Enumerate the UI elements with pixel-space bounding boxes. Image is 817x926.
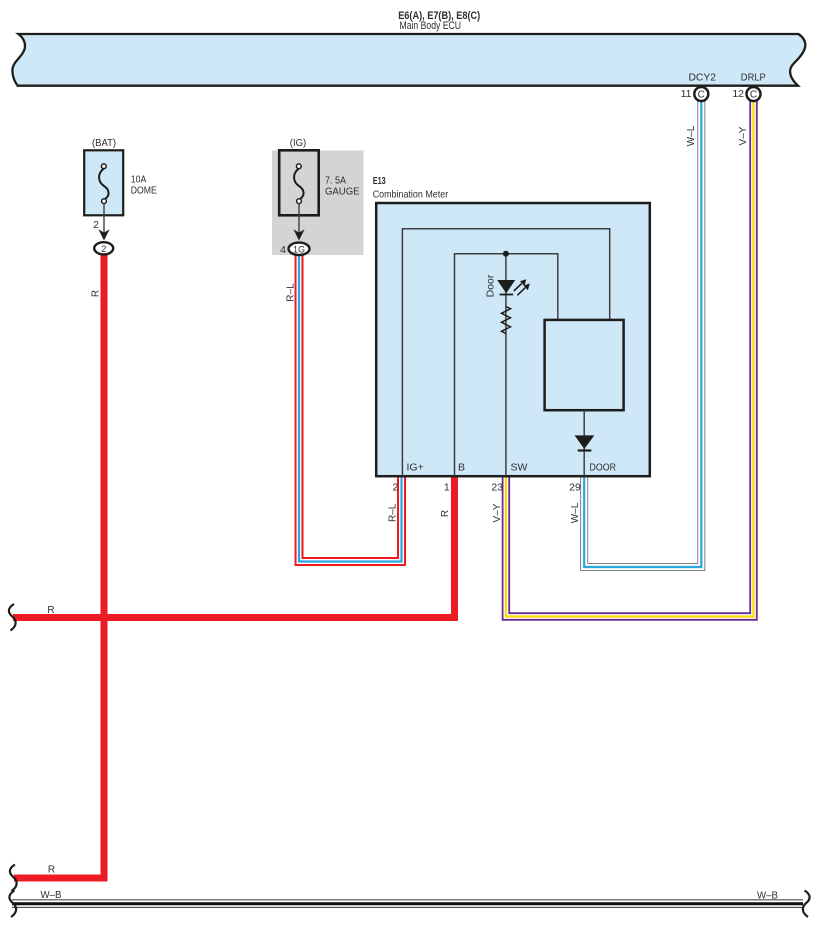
wire W-L from DCY2 pin 11 down, left to meter pin 29 — [584, 100, 701, 567]
svg-text:12: 12 — [732, 88, 744, 100]
break symbol left of bottom R line — [10, 865, 17, 892]
svg-text:(IG): (IG) — [290, 137, 307, 149]
ground bus W-B line — [12, 900, 803, 908]
wire R-L from IG fuse down, right to meter pin 2 — [299, 252, 402, 562]
svg-text:W–L: W–L — [570, 502, 581, 523]
svg-text:V–Y: V–Y — [492, 503, 503, 522]
svg-text:DRLP: DRLP — [741, 72, 766, 84]
svg-text:R: R — [48, 865, 55, 876]
svg-text:R: R — [47, 605, 54, 616]
junction node dot — [503, 251, 509, 257]
svg-text:Combination Meter: Combination Meter — [373, 189, 449, 201]
svg-text:DOME: DOME — [131, 185, 157, 197]
internal wire sub-box to DOOR pin — [583, 410, 585, 476]
svg-text:2: 2 — [392, 482, 398, 494]
svg-text:E13: E13 — [373, 175, 386, 187]
svg-text:Door: Door — [485, 274, 497, 297]
wire R main: BAT vertical down to bottom corner — [14, 252, 104, 878]
sub-box (door switch logic) — [545, 320, 624, 410]
break symbol left of W-B line — [9, 891, 16, 918]
arrow into connector 2 — [98, 229, 109, 240]
fuse F2 IG element — [294, 164, 303, 204]
svg-text:R–L: R–L — [388, 503, 399, 522]
svg-text:C: C — [750, 90, 757, 101]
svg-text:B: B — [458, 462, 465, 474]
diode at DOOR output — [575, 435, 595, 451]
svg-text:W–L: W–L — [686, 125, 697, 146]
connector oval 2 — [94, 242, 113, 254]
wire from fuse BAT to connector — [103, 204, 105, 233]
svg-text:Main Body ECU: Main Body ECU — [400, 20, 462, 32]
svg-text:V–Y: V–Y — [738, 126, 749, 145]
resistor in LED branch — [502, 307, 511, 334]
svg-text:IG+: IG+ — [407, 462, 424, 474]
svg-text:23: 23 — [491, 482, 503, 494]
svg-text:R–L: R–L — [286, 283, 297, 302]
svg-text:11: 11 — [681, 88, 692, 100]
break symbol right of W-B line — [803, 891, 810, 918]
svg-text:(BAT): (BAT) — [92, 137, 116, 149]
connector oval 1G — [289, 243, 310, 255]
fuse F2 IG box — [279, 150, 319, 215]
break symbol left of main R line — [9, 604, 16, 631]
ECU bus bar E6/E7/E8 Main Body ECU — [12, 34, 805, 86]
svg-text:GAUGE: GAUGE — [325, 186, 360, 198]
svg-text:C: C — [698, 90, 705, 101]
arrow into connector 1G — [293, 229, 304, 240]
svg-text:1G: 1G — [293, 244, 305, 254]
fuse F1 BAT box — [84, 150, 123, 215]
internal wire from B up and over to sub-box — [455, 254, 558, 476]
wire from fuse IG to connector — [298, 204, 300, 233]
svg-text:W–B: W–B — [41, 890, 62, 901]
svg-text:29: 29 — [569, 482, 581, 494]
svg-text:4: 4 — [280, 244, 286, 256]
svg-text:1: 1 — [444, 482, 450, 494]
svg-text:2: 2 — [101, 244, 106, 254]
internal wire LED branch down to SW — [505, 254, 507, 476]
svg-text:DOOR: DOOR — [590, 462, 617, 474]
wire R main horizontal at y617.5 to meter pin 1 — [13, 476, 455, 621]
fuse block gray background (IG) — [272, 151, 364, 256]
internal wire from IG+ up and over to sub-box — [402, 229, 609, 476]
svg-text:W–B: W–B — [757, 891, 778, 902]
LED Door indicator — [497, 279, 530, 295]
svg-text:SW: SW — [511, 462, 528, 474]
fuse F1 BAT element — [99, 164, 108, 204]
svg-text:R: R — [91, 290, 102, 297]
svg-text:DCY2: DCY2 — [688, 72, 716, 84]
connector pin 11 circle C — [694, 87, 708, 101]
combination meter box E13 — [376, 203, 650, 476]
svg-text:R: R — [440, 510, 451, 517]
connector pin 12 circle C — [747, 87, 761, 101]
svg-text:2: 2 — [93, 219, 99, 231]
wire V-Y from DRLP pin 12 down, left to meter pin 23 — [506, 100, 754, 617]
